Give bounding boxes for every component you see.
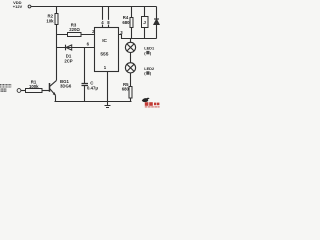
- svg-text:(: (: [144, 50, 146, 55]
- wire flyback diode branch top: [156, 7, 158, 19]
- ground: [105, 102, 111, 108]
- pin 8: [106, 20, 110, 25]
- wire pin 4 to rail: [102, 7, 104, 28]
- wire R5 to ground rail: [130, 98, 132, 102]
- diode VD flyback: [154, 18, 159, 20]
- wire pin6 line: [57, 47, 95, 49]
- svg-text:6: 6: [87, 41, 90, 46]
- wire flyback diode bottom: [156, 25, 158, 39]
- label audio signal input (CJK blobs): [0, 84, 11, 92]
- wire input to R1: [21, 90, 26, 92]
- svg-text:680: 680: [122, 20, 130, 25]
- wire LED1 top: [130, 39, 132, 43]
- svg-text:0.47μ: 0.47μ: [87, 86, 98, 91]
- wire R1 to base: [42, 90, 49, 92]
- svg-text:555: 555: [100, 51, 108, 57]
- wire R2 branch from rail: [56, 7, 58, 14]
- diode D1: [65, 45, 67, 51]
- svg-text:680: 680: [122, 87, 130, 92]
- relay J: [142, 17, 149, 28]
- transistor Q1 BG1 base bar: [49, 83, 51, 92]
- wire LED2 to R5: [130, 73, 132, 87]
- wire capacitor branch: [84, 48, 86, 84]
- svg-text:): ): [150, 71, 152, 76]
- svg-text:3: 3: [120, 30, 123, 35]
- capacitor C: [82, 84, 89, 86]
- transistor Q1 collector lead: [50, 80, 57, 86]
- svg-text:J: J: [143, 20, 146, 26]
- wire top +12V rail: [31, 6, 157, 8]
- wire R4 bottom: [131, 28, 133, 39]
- LED2 lamp: [125, 63, 135, 73]
- resistor R3: [68, 33, 82, 37]
- wire LED1 to LED2: [130, 53, 132, 63]
- svg-text:220Ω: 220Ω: [69, 27, 80, 32]
- svg-text:(: (: [144, 71, 146, 76]
- pin 4: [100, 20, 104, 25]
- svg-text:IC: IC: [102, 38, 107, 44]
- svg-text:2CP: 2CP: [64, 58, 72, 63]
- svg-text:): ): [150, 50, 152, 55]
- resistor R2: [55, 14, 58, 25]
- resistor R1: [26, 89, 43, 93]
- svg-text:10k: 10k: [46, 18, 54, 23]
- wire relay branch top: [144, 7, 146, 17]
- watermark logo bird: [142, 98, 150, 102]
- svg-text:+12V: +12V: [13, 4, 23, 9]
- svg-text:3DG6: 3DG6: [60, 84, 72, 89]
- LED1 lamp: [125, 42, 135, 52]
- node VDD terminal: [28, 5, 31, 8]
- wire relay bottom: [144, 28, 146, 39]
- wire capacitor to ground rail: [84, 86, 86, 102]
- wire pin 8 to rail: [108, 7, 110, 28]
- wire R2 bottom down to transistor collector node: [56, 25, 58, 81]
- resistor R5: [129, 87, 132, 99]
- wire pin 1 to ground rail: [107, 72, 109, 102]
- svg-text:100k: 100k: [29, 84, 39, 89]
- wire R4 branch: [131, 7, 133, 18]
- node input terminal: [17, 89, 21, 93]
- op-amp U1 IC 555 box: [95, 28, 119, 72]
- wire pin 3 output node: [119, 35, 157, 39]
- wire bottom ground rail: [55, 101, 132, 103]
- wire pin2 line: [57, 34, 95, 36]
- resistor R4: [130, 18, 133, 28]
- transistor Q1 emitter lead: [50, 89, 56, 96]
- watermark red text: [145, 102, 160, 108]
